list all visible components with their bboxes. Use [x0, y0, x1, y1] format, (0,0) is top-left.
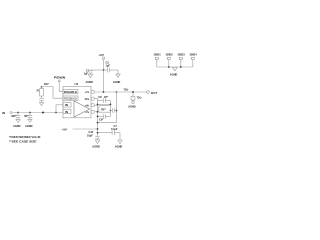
svg-text:GND3: GND3: [178, 53, 186, 57]
ground AGND (C4): [13, 119, 21, 128]
svg-text:AGND: AGND: [13, 124, 21, 128]
ground pins fragment GND2 label: [166, 53, 174, 57]
input terminal IN: [2, 111, 12, 115]
capacitor C7 0.1uF: [98, 124, 121, 140]
pin box IN-: [63, 109, 71, 114]
svg-text:75Ω: 75Ω: [137, 96, 142, 100]
wire feedback jog: [42, 87, 64, 99]
wire GND1 down: [156, 60, 158, 68]
svg-text:AGND: AGND: [115, 145, 123, 149]
junction GND2-bus: [168, 66, 170, 68]
ground pins fragment GND1 label: [154, 53, 162, 57]
wire network left rail: [94, 99, 97, 137]
pin circle 4: [91, 110, 94, 113]
svg-text:AGND: AGND: [86, 80, 94, 84]
svg-text:AGND: AGND: [25, 124, 33, 128]
pin label +VS: [85, 90, 90, 94]
junction +5V caps: [103, 69, 105, 71]
junction C4: [17, 112, 19, 114]
ground pins fragment GND4 label: [190, 53, 198, 57]
svg-text:−5V: −5V: [62, 127, 67, 131]
capacitor C6 polarized: [110, 108, 116, 113]
capacitor C4 82pF: [11, 113, 20, 120]
capacitor C5 NP: [24, 113, 32, 120]
ground AGND (C7): [115, 140, 123, 149]
junction C7 branch: [97, 132, 99, 134]
svg-text:RF*: RF*: [101, 108, 105, 112]
pin box GND4: [191, 57, 194, 59]
svg-text:C9*: C9*: [99, 118, 103, 122]
svg-text:RG*: RG*: [44, 82, 49, 86]
junction RF right: [110, 104, 112, 106]
svg-text:GND4: GND4: [190, 53, 198, 57]
resistor R2 load 75: [131, 92, 141, 101]
junction output node: [132, 91, 134, 93]
pin circle 1: [91, 90, 94, 93]
wire +5V down to pin: [103, 60, 105, 93]
junction input node: [42, 111, 44, 113]
capacitor C10 10uF: [87, 130, 100, 140]
junction RF left: [97, 104, 99, 106]
svg-text:AGND: AGND: [170, 73, 178, 77]
svg-text:1P*: 1P*: [104, 95, 108, 99]
svg-text:1µF: 1µF: [84, 71, 89, 75]
svg-text:AGND: AGND: [128, 104, 136, 108]
ground AGND (pins bus): [170, 68, 178, 77]
supply terminal -5V: [62, 127, 98, 131]
svg-text:P/DWN: P/DWN: [54, 76, 66, 80]
pin circle 2: [91, 97, 94, 100]
svg-text:10µF: 10µF: [87, 134, 93, 138]
wire to capacitor C1: [91, 69, 104, 71]
wire PWDN to pin1: [59, 82, 63, 92]
junction -5V rail: [97, 128, 99, 130]
svg-text:C10: C10: [89, 130, 94, 134]
svg-text:75Ω: 75Ω: [124, 87, 129, 91]
power +5V terminal: [99, 53, 105, 60]
junction lower branch: [97, 122, 99, 124]
disable terminal PWDN: [54, 76, 66, 82]
pin box IN+: [63, 103, 71, 108]
ground AGND (C2): [113, 74, 121, 84]
pin box GND3: [179, 57, 182, 59]
ground AGND (CG): [39, 102, 43, 105]
junction supply-pin1: [103, 91, 105, 93]
wire GND4 down: [192, 60, 194, 68]
wire GND2 down: [168, 60, 170, 68]
svg-text:+Vo: +Vo: [85, 103, 90, 107]
wire output run: [94, 91, 146, 93]
junction feedback tap: [116, 91, 118, 93]
pin box DISABLE: [63, 89, 78, 94]
svg-text:AGND: AGND: [113, 80, 121, 84]
pin label OUT: [85, 103, 90, 107]
junction CF2 left: [97, 116, 99, 118]
pin label -VS: [85, 110, 90, 114]
junction network right: [110, 110, 112, 112]
wire RF top: [98, 103, 111, 105]
node RG top: [41, 86, 43, 88]
svg-text:Vbs: Vbs: [85, 97, 90, 101]
capacitor CG: [39, 99, 43, 103]
ground pins fragment GND3 label: [178, 53, 186, 57]
note case size: [9, 139, 37, 143]
output terminal OUT: [147, 91, 158, 96]
svg-text:**SEE CASE SIZE: **SEE CASE SIZE: [9, 139, 37, 143]
capacitor CF1 top branch: [98, 95, 111, 105]
resistor R1 series 75: [124, 87, 129, 91]
ground AGND (C1): [86, 75, 94, 85]
wire ground bus: [157, 66, 193, 68]
svg-text:GND1: GND1: [154, 53, 162, 57]
junction pin4 rail: [97, 111, 99, 113]
wire pin4 stub: [94, 111, 97, 113]
wire input run: [12, 112, 63, 114]
svg-text:GND2: GND2: [166, 53, 174, 57]
op-amp triangle U1: [74, 101, 90, 117]
pin box FEEDBACK: [63, 96, 78, 101]
svg-text:+5V: +5V: [99, 53, 104, 57]
terminal AGND (load): [128, 101, 136, 108]
svg-text:AGND: AGND: [92, 145, 100, 149]
svg-text:IN: IN: [2, 111, 5, 115]
svg-text:+Vs: +Vs: [85, 90, 90, 94]
svg-text:−Vs: −Vs: [85, 110, 90, 114]
svg-text:1µF: 1µF: [106, 64, 111, 68]
junction C5: [29, 112, 31, 114]
pin label VBS: [85, 97, 90, 101]
capacitor C1 1uF: [84, 69, 93, 76]
svg-text:U1: U1: [75, 82, 79, 86]
ground AGND (C5): [25, 119, 33, 128]
IC U1 body: [63, 82, 91, 118]
wire pin3 stub: [94, 104, 97, 106]
wire GND3 down: [180, 60, 182, 68]
capacitor C2 1uF: [104, 60, 119, 74]
wire IN+ branch: [55, 105, 63, 114]
wire feedback vertical: [98, 92, 117, 123]
svg-text:FEEDBACK: FEEDBACK: [64, 97, 78, 101]
resistor RG: [36, 82, 49, 98]
pin box GND2: [167, 57, 170, 59]
svg-text:OUT: OUT: [151, 91, 158, 95]
pin circle 3: [91, 104, 94, 107]
junction feedback cap: [116, 110, 118, 112]
svg-text:DISABLE: DISABLE: [64, 90, 77, 94]
pin box GND1: [155, 57, 158, 59]
note user defined value: [9, 135, 41, 139]
ground AGND (C10): [92, 140, 100, 149]
capacitor CF2 bottom branch: [98, 112, 111, 121]
junction GND3-bus: [180, 66, 182, 68]
resistor RF box: [99, 106, 111, 113]
